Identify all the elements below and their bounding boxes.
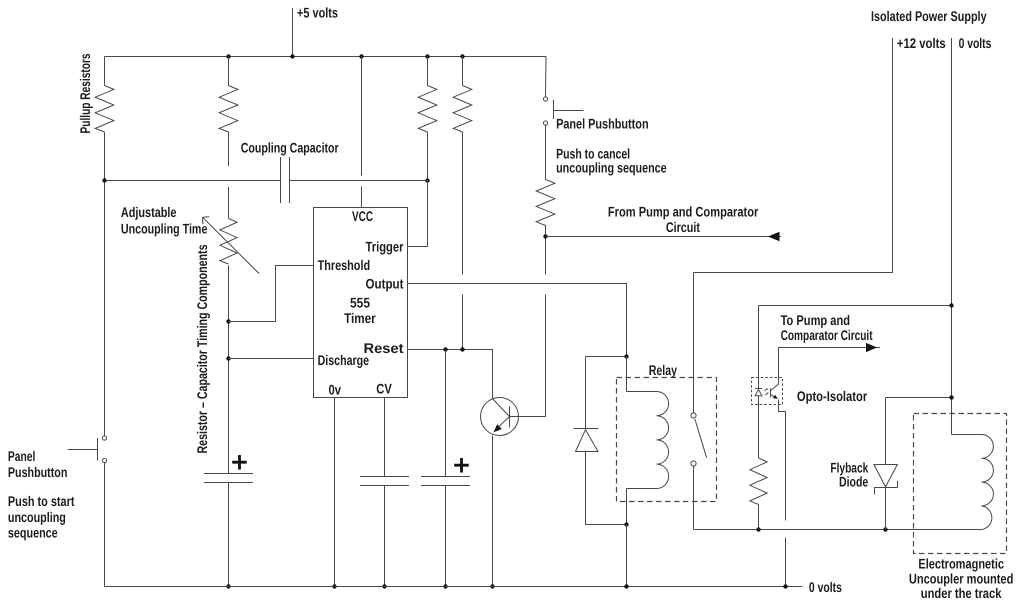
svg-text:Pushbutton: Pushbutton	[8, 464, 68, 480]
node: timing branch on +5 rail	[226, 54, 230, 58]
node: opto branch junction	[756, 527, 760, 531]
svg-text:Electromagnetic: Electromagnetic	[918, 555, 1004, 571]
svg-text:Pullup Resistors: Pullup Resistors	[77, 53, 93, 133]
svg-text:Discharge: Discharge	[318, 352, 370, 368]
transistor emitter arrowhead	[494, 424, 502, 432]
svg-text:Panel Pushbutton: Panel Pushbutton	[556, 115, 649, 131]
resistor reset pullup	[453, 86, 472, 133]
isolated supply +12V line	[694, 38, 893, 273]
svg-text:under the track: under the track	[921, 585, 1002, 601]
svg-text:Adjustable: Adjustable	[121, 204, 177, 220]
wire: opto collector up to To-Pump wire	[778, 348, 780, 385]
transistor collector diagonal	[493, 399, 510, 417]
flyback diode D2 schottky bar	[875, 481, 898, 495]
ground rail 0V (bottom)	[105, 586, 803, 588]
node: relay coil bottom junction	[624, 522, 628, 526]
wire: opto LED cathode to isolated 0V	[759, 305, 952, 307]
node: opto emitter ground junction	[783, 584, 787, 588]
svg-text:Uncoupling Time: Uncoupling Time	[121, 221, 208, 237]
wire: reset pin to transistor collector	[408, 350, 493, 399]
node: flyback diode junction	[883, 527, 887, 531]
opto phototransistor emitter	[771, 395, 777, 399]
wire: relay coil top connection	[586, 356, 627, 358]
wire: trigger pullup top lead	[427, 57, 429, 86]
node: trigger pullup on +5 rail	[425, 54, 429, 58]
arrowhead to-pump	[866, 343, 877, 352]
svg-text:Opto-Isolator: Opto-Isolator	[797, 388, 868, 404]
svg-text:Diode: Diode	[839, 473, 868, 489]
relay coil K1	[627, 392, 669, 489]
svg-text:Trigger: Trigger	[366, 238, 404, 254]
node: rail2 right junction	[425, 178, 429, 182]
svg-text:0 volts: 0 volts	[959, 35, 992, 51]
node: opto return junction on 0V line	[949, 303, 953, 307]
variable resistor (adjustable uncoupling time)	[220, 219, 237, 264]
wire: flyback diode bottom lead	[885, 488, 887, 530]
CV capacitor plates	[360, 477, 409, 486]
wire: VCC feed crossing rail2 (hop)	[361, 57, 363, 208]
wire: output pin to relay	[408, 284, 627, 357]
wire: CV pin to CV capacitor	[384, 398, 386, 477]
relay switch blade	[695, 419, 707, 458]
node: relay coil top junction	[624, 354, 628, 358]
svg-text:CV: CV	[376, 380, 392, 396]
flyback diode D2 top wire to isolated 0V	[886, 397, 952, 399]
wire: From Pump and Comparator Circuit (arrow left)	[546, 236, 782, 238]
uncoupler dashed enclosure	[914, 414, 1007, 554]
resistor cancel pulldown	[536, 180, 555, 226]
svg-text:Threshold: Threshold	[318, 257, 371, 273]
start pushbutton actuator	[68, 438, 98, 461]
svg-text:VCC: VCC	[352, 208, 373, 224]
resistor timing fixed R	[219, 86, 238, 133]
opto LED bar	[755, 388, 762, 390]
arrowhead from-pump	[768, 232, 780, 242]
diode D1 cathode bar	[574, 428, 599, 430]
node: reset cap ground junction	[443, 584, 447, 588]
wire: trigger coupling rail left of cap	[105, 180, 281, 182]
svg-text:uncoupling: uncoupling	[8, 509, 66, 525]
svg-text:0 volts: 0 volts	[809, 579, 842, 595]
opto dashed box	[752, 378, 783, 405]
node: relay ground junction	[624, 584, 628, 588]
node: discharge tap	[226, 356, 230, 360]
svg-text:Isolated Power Supply: Isolated Power Supply	[871, 8, 987, 24]
node: from-pump junction	[543, 234, 547, 238]
coupling capacitor plates	[281, 157, 290, 203]
polarity + of reset cap	[454, 458, 469, 473]
relay flyback diode D1: top lead	[585, 357, 587, 429]
svg-text:Reset: Reset	[364, 340, 404, 356]
svg-text:+5 volts: +5 volts	[297, 5, 338, 21]
relay dashed enclosure	[617, 378, 717, 502]
wire: timing branch crossing rail2 (hop)	[228, 132, 230, 219]
potentiometer arrow	[203, 217, 260, 274]
wire: left vertical to start pushbutton	[104, 132, 106, 436]
svg-text:From Pump and Comparator: From Pump and Comparator	[608, 203, 759, 219]
opto emitter arrowhead	[773, 395, 778, 399]
svg-text:0v: 0v	[329, 382, 342, 398]
wire: reset debounce cap top lead	[445, 350, 447, 477]
polarity + of timing cap	[232, 455, 247, 470]
flyback diode D2 triangle	[874, 465, 897, 487]
transistor base bar	[509, 407, 511, 428]
wire: flyback diode top lead	[885, 398, 887, 465]
wire: cancel button to resistor	[545, 125, 547, 179]
wire: 0v pin to ground rail	[334, 398, 336, 587]
svg-text:Comparator Circuit: Comparator Circuit	[781, 327, 873, 343]
555 timer U1 box	[314, 208, 408, 398]
svg-text:Timer: Timer	[344, 310, 376, 326]
wire: relay NO contact to switched wire	[693, 466, 695, 529]
cancel pushbutton contact circles	[543, 97, 547, 101]
svg-text:Output: Output	[366, 276, 404, 292]
wire: opto resistor to switched wire	[758, 505, 760, 530]
node: reset pullup on +5 rail	[460, 54, 464, 58]
wire: relay coil bottom lead	[626, 489, 628, 525]
svg-text:+12 volts: +12 volts	[897, 35, 946, 51]
wire: discharge pin to timing node	[229, 358, 314, 360]
switched 12V wire	[694, 529, 982, 531]
wire: reset pullup top lead	[462, 57, 464, 86]
svg-text:Relay: Relay	[649, 362, 677, 378]
+5V supply rail (top)	[105, 56, 547, 58]
wire: relay coil bottom to ground rail	[626, 525, 628, 587]
opto LED triangle	[755, 390, 762, 396]
resistor trigger pullup	[418, 86, 437, 133]
wire: isolated 0V to uncoupler coil top	[952, 434, 982, 436]
node: VCC branch on +5 rail	[359, 54, 363, 58]
node: +5 stub junction	[290, 54, 294, 58]
wire: start button to ground rail	[104, 463, 106, 587]
node: timing cap ground junction	[226, 584, 230, 588]
wire: trigger pullup to trigger pin	[427, 132, 429, 247]
+5V feed stub	[292, 8, 294, 57]
svg-text:Coupling Capacitor: Coupling Capacitor	[241, 140, 339, 156]
wire: rail2 right of cap	[290, 180, 428, 182]
node: rail2 left junction	[102, 178, 106, 182]
wire: emitter to ground rail	[492, 435, 494, 586]
wire: cancel resistor to from-pump node, down to transistor base (hop over output)	[510, 225, 546, 417]
svg-text:555: 555	[350, 295, 370, 311]
opto phototransistor collector	[771, 384, 779, 391]
svg-text:Resistor – Capacitor Timing Co: Resistor – Capacitor Timing Components	[194, 244, 210, 453]
wire: opto emitter down (hop over switched wire) to ground rail	[779, 400, 786, 587]
wire: relay coil top lead	[626, 357, 628, 392]
relay contact circles	[691, 413, 696, 418]
svg-text:Panel: Panel	[8, 448, 36, 464]
wire: timing branch top lead	[228, 57, 230, 86]
wire: threshold pin to timing node	[229, 266, 314, 322]
electrolytic timing capacitor plates	[204, 474, 253, 483]
cancel pushbutton actuator	[554, 100, 584, 119]
wire: reset pullup down, hop over output wire	[462, 132, 464, 350]
wire: left vertical top (pullup R top lead)	[104, 57, 106, 86]
wire: To Pump and Comparator Circuit (arrow right)	[779, 347, 881, 349]
svg-text:Push to start: Push to start	[8, 493, 75, 509]
diode D1 triangle	[576, 430, 599, 452]
start pushbutton contact circles	[102, 436, 106, 440]
node: flyback top junction on 0V line	[949, 395, 953, 399]
wire: +12V to relay common contact	[693, 273, 695, 413]
wire: opto LED to resistor	[758, 396, 760, 458]
opto phototransistor bar	[770, 388, 772, 397]
node: 0v ground junction	[332, 584, 336, 588]
wire: trigger pin lead	[408, 246, 428, 248]
node: emitter ground junction	[490, 584, 494, 588]
node: reset debounce cap tap	[443, 347, 447, 351]
resistor pullup R (left)	[95, 86, 114, 133]
wire: timing cap to ground rail	[228, 483, 230, 587]
node: reset pullup tap	[460, 347, 464, 351]
transistor Q1 (circle)	[481, 398, 519, 436]
resistor opto LED series R	[750, 458, 767, 504]
uncoupler coil L1	[982, 435, 994, 530]
electrolytic reset capacitor plates	[421, 477, 470, 486]
cancel pushbutton top lead from +5 rail	[545, 57, 548, 97]
wire: opto LED top lead	[758, 306, 760, 389]
node: threshold tap	[226, 319, 230, 323]
wire: CV cap to ground rail	[384, 486, 386, 587]
transistor emitter diagonal	[495, 417, 509, 431]
opto LED arrows	[765, 390, 768, 396]
wire: timing node down to timing capacitor	[228, 266, 230, 474]
diode D1 bottom lead	[586, 452, 627, 525]
isolated supply 0V line	[951, 38, 953, 435]
svg-text:Circuit: Circuit	[666, 219, 700, 235]
svg-text:sequence: sequence	[8, 525, 58, 541]
svg-text:uncoupling sequence: uncoupling sequence	[556, 160, 667, 176]
svg-text:To Pump and: To Pump and	[781, 312, 850, 328]
node: CV cap ground junction	[382, 584, 386, 588]
wire: reset cap to ground rail	[445, 486, 447, 587]
